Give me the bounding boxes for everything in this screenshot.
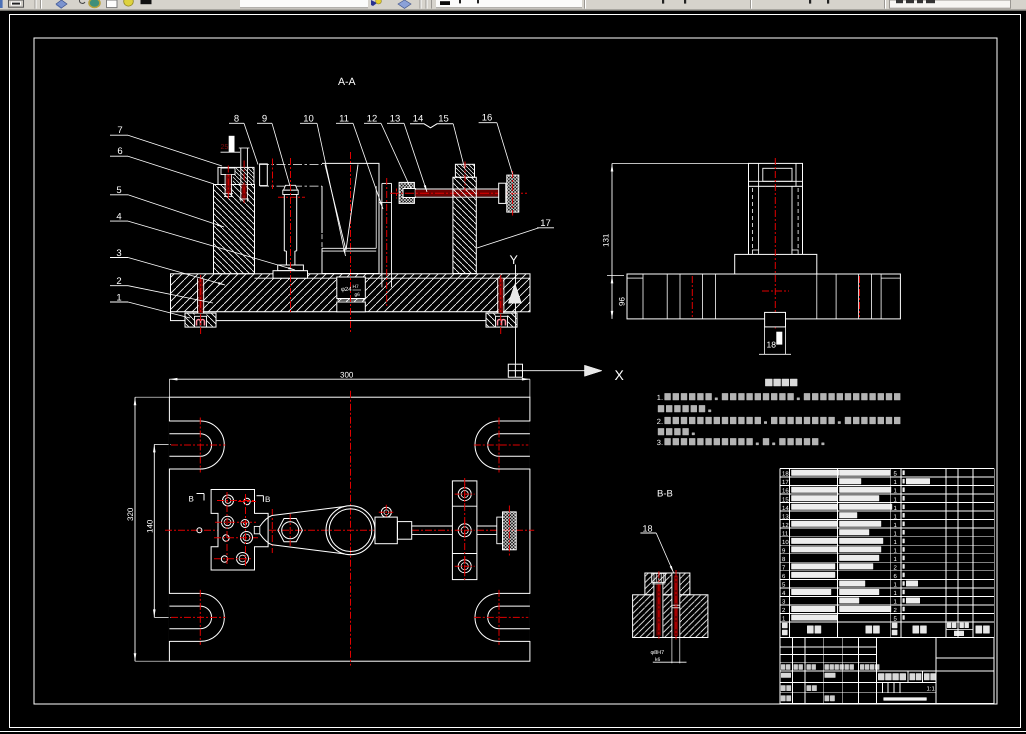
toolbar blue cube icon — [56, 0, 67, 8]
svg-text:B: B — [189, 495, 194, 504]
left foot washer-nut — [185, 313, 216, 327]
section arrow X arrowhead — [585, 365, 603, 376]
right hold-down bolt — [497, 278, 499, 313]
side view knob cap — [749, 163, 803, 186]
vee block cavity bottom — [322, 247, 376, 249]
clamp bolt 7 head — [221, 168, 235, 175]
tech req line 2 — [658, 405, 664, 412]
vee groove lines — [325, 165, 346, 251]
toolbar text marks 1 — [662, 0, 664, 4]
svg-text:3.: 3. — [657, 438, 663, 447]
right foot nut pink glyph — [498, 320, 506, 326]
svg-text:7: 7 — [117, 125, 122, 136]
toolbar text marks 2 — [809, 0, 811, 4]
svg-text:15: 15 — [782, 496, 789, 503]
plan clamp body bolt circles — [223, 495, 234, 506]
toolbar icon fragment blue — [0, 0, 3, 8]
side view dim ext top — [612, 163, 748, 165]
plan clamp body bolt centerlines — [226, 492, 228, 566]
svg-text:2.: 2. — [657, 417, 663, 426]
side view main centerline — [774, 158, 776, 329]
toolbar match-prop icon — [371, 0, 377, 6]
technical requirements title — [765, 379, 772, 387]
svg-text:18: 18 — [782, 471, 789, 478]
svg-text:φ24: φ24 — [341, 286, 352, 293]
svg-text:131: 131 — [602, 233, 611, 247]
toolbar bottom shadow line — [0, 10, 1026, 11]
toolbar small circle icon — [79, 0, 85, 3]
side view short horizontal centerline — [762, 290, 789, 292]
svg-text:Y: Y — [510, 253, 519, 267]
knurled adjusting collar 12 — [399, 182, 414, 203]
svg-text:1:1: 1:1 — [927, 685, 936, 692]
plan knurled knob — [503, 512, 517, 550]
title block grid — [780, 638, 994, 704]
B-B knurled insert — [652, 573, 666, 582]
plan left clamp body — [211, 490, 268, 571]
side view base — [627, 274, 900, 319]
left column hatched — [214, 185, 255, 274]
svg-text:13: 13 — [782, 513, 789, 520]
svg-text:9: 9 — [262, 114, 267, 125]
plan U-slot top-left — [169, 421, 171, 468]
svg-text:300: 300 — [340, 371, 354, 380]
side view base bolt centerlines — [691, 276, 693, 317]
section arrow Y line — [515, 265, 517, 365]
B-B right bolt hole — [672, 573, 680, 638]
svg-text:16: 16 — [782, 488, 789, 495]
side view dim line 131 — [611, 164, 613, 319]
svg-text:12: 12 — [367, 114, 378, 125]
svg-text:14: 14 — [413, 114, 424, 125]
toolbar separator 2 — [419, 0, 421, 9]
svg-text:18: 18 — [767, 340, 777, 350]
base plate hatched — [171, 274, 531, 312]
svg-text:11: 11 — [339, 114, 349, 125]
svg-text:8: 8 — [234, 114, 239, 125]
base plate step line — [255, 277, 531, 279]
svg-text:11: 11 — [782, 530, 789, 537]
toolbar separator 4 — [750, 0, 752, 9]
plan clamp arm pivot tip — [254, 526, 259, 533]
tech req line 4 — [658, 428, 664, 435]
plan main horizontal centerline — [165, 529, 534, 531]
parts list header split lines — [946, 629, 973, 631]
svg-text:15: 15 — [438, 114, 449, 125]
plan rod step block B — [398, 522, 412, 540]
origin crosshair box — [508, 364, 522, 377]
svg-text:B: B — [265, 495, 270, 504]
svg-text:X: X — [615, 367, 625, 383]
toolbar style combo field — [890, 0, 1011, 8]
svg-text:18: 18 — [643, 524, 653, 534]
plan right plate bolts — [458, 488, 471, 501]
middle stud shaft — [283, 195, 285, 252]
side view column — [748, 186, 750, 254]
knurled knob 16 — [507, 175, 519, 212]
toolbar black swatch — [141, 0, 152, 4]
toolbar blue cube icon 2 — [398, 0, 411, 8]
plan clamp ring inner — [329, 509, 372, 552]
title block craft row — [781, 695, 786, 701]
B-B left pin hole — [654, 582, 663, 637]
svg-text:B-B: B-B — [657, 489, 673, 500]
plan arm hex nut — [278, 519, 303, 542]
plan clamp ring outer — [326, 506, 375, 555]
svg-text:320: 320 — [126, 507, 135, 521]
svg-text:96: 96 — [618, 297, 627, 306]
title block marks row — [781, 673, 791, 678]
plan small circle part — [381, 507, 391, 517]
toolbar white square icon — [107, 0, 118, 8]
middle stud washer block — [278, 265, 304, 271]
B-B bottom dim lines — [671, 638, 673, 664]
plan small pin circle — [197, 528, 202, 533]
toolbar separator 1 — [34, 0, 36, 9]
toolbar white combo field 1 — [240, 0, 368, 8]
clamp stud 8 shaft — [240, 148, 242, 202]
clamp screw rod — [415, 188, 507, 190]
plan dim 320 — [134, 397, 136, 661]
screw socket — [403, 189, 415, 198]
toolbar green sphere icon — [89, 0, 100, 8]
status bar top line — [0, 731, 1026, 733]
phi24 bore in base — [337, 277, 366, 299]
side view dim 96 — [611, 275, 614, 283]
vertical pin 11 — [381, 183, 383, 287]
plan U-slot top-right — [529, 421, 531, 468]
title block bottom bar — [883, 697, 926, 700]
toolbar separator 5 — [884, 0, 886, 9]
svg-text:A-A: A-A — [338, 76, 356, 88]
plan U-slot bottom-right — [529, 594, 531, 641]
parts list table grid — [780, 469, 994, 638]
toolbar right end cap — [1012, 0, 1026, 9]
title block small texts row — [781, 664, 785, 670]
svg-text:10: 10 — [782, 539, 789, 546]
workpiece phantom outline — [260, 164, 322, 166]
B-B lower block hatched — [633, 595, 708, 638]
toolbar printer icon — [8, 0, 25, 9]
clamp screw centerline — [390, 192, 527, 194]
right foot washer-nut — [486, 313, 517, 327]
left foot nut pink glyph — [197, 320, 205, 326]
svg-text:12: 12 — [782, 522, 789, 529]
clamp bolt 7 shaft — [224, 175, 226, 197]
svg-text:g6: g6 — [355, 292, 361, 298]
svg-text:25: 25 — [221, 144, 229, 151]
side view flange block — [735, 254, 817, 274]
svg-text:17: 17 — [782, 479, 789, 486]
svg-text:16: 16 — [482, 113, 493, 124]
plan knob collar disc — [497, 517, 503, 544]
toolbar separator 3 — [584, 0, 586, 9]
svg-text:H7: H7 — [353, 284, 359, 290]
svg-text:140: 140 — [146, 519, 155, 533]
plan dim 300 — [169, 378, 530, 380]
thrust washer disc — [499, 183, 506, 203]
toolbar yellow ball icon — [124, 0, 134, 6]
locating strap plate — [260, 164, 268, 186]
section arrow X line — [523, 370, 585, 372]
plan dim 140 — [153, 444, 155, 617]
plan rod shaft — [412, 525, 501, 527]
right column top bolt — [455, 164, 474, 177]
vee block cavity right edge — [375, 186, 377, 248]
right column hatched — [453, 177, 476, 273]
plan main vertical centerline — [350, 391, 352, 666]
svg-text:φ8H7: φ8H7 — [651, 650, 665, 656]
B-B upper block hatched — [645, 573, 690, 595]
svg-text:13: 13 — [390, 114, 401, 125]
plan U-slot bottom-left — [169, 594, 171, 641]
workpiece centerline — [272, 159, 274, 190]
plan clamp arm — [260, 507, 345, 527]
title block stage mark labels — [878, 673, 884, 680]
parts list header texts — [782, 623, 788, 628]
plan view outline — [169, 397, 530, 661]
svg-text:10: 10 — [303, 114, 314, 125]
toolbar background — [0, 0, 1026, 10]
center vee block — [322, 163, 379, 273]
side view bottom key box — [765, 312, 786, 327]
left hold-down bolt — [197, 278, 199, 313]
plan rod step block A — [375, 517, 397, 544]
plan right bolt plate — [452, 481, 477, 580]
bottom liner plate — [171, 312, 516, 321]
section arrow Y arrowhead — [508, 284, 521, 304]
svg-text:6: 6 — [117, 146, 122, 157]
labels 14-15 shared leader bar — [410, 124, 453, 128]
toolbar layer combo field — [436, 0, 582, 8]
side view column feet — [753, 250, 759, 254]
middle stud nut — [284, 185, 298, 190]
clamp block on column — [218, 167, 254, 184]
title block design row — [781, 685, 786, 691]
svg-text:1.: 1. — [657, 393, 663, 402]
svg-text:14: 14 — [782, 505, 789, 512]
